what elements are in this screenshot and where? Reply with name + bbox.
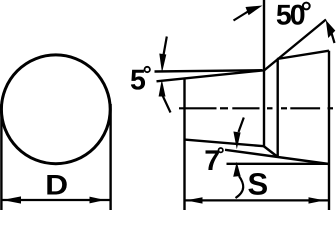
wire: taper top edge (5 deg) — [157, 70, 265, 81]
wire: 50 deg left leader — [234, 12, 249, 21]
wire: top edge of right body — [277, 51, 329, 59]
label 5 deg — [131, 70, 145, 90]
wire: 7 deg upper leader — [239, 118, 244, 133]
arrow: 50 deg left (points up-right at vertical line) — [246, 6, 263, 16]
circle (front view of round insert) — [1, 55, 110, 164]
wire: right edge + S right extension line — [328, 51, 330, 210]
centerline (dash-dot axis) — [179, 107, 333, 109]
wire: D dimension line — [2, 199, 111, 201]
arrow: 5 deg upper (points down at ref line) — [159, 54, 166, 73]
label degree of 7 — [219, 148, 223, 152]
wire: 5 deg horizontal reference line — [155, 70, 263, 71]
arrow: 7 deg upper (points down through taper bottom edge) — [233, 132, 240, 150]
wire: vertical face line at x=264 with top extension — [263, 0, 265, 146]
wire: bottom edge of body extended left (7 deg upper arm) — [225, 150, 329, 164]
wire: 50 deg right leader — [332, 33, 335, 43]
wire: bottom chamfer — [264, 146, 278, 157]
wire: taper bottom edge (7 deg) — [185, 140, 265, 147]
wire: S dimension line — [185, 199, 330, 201]
label 7 deg — [206, 150, 219, 170]
arrow: 5 deg lower (points up at taper edge) — [159, 80, 166, 97]
wire: 5 deg upper leader — [164, 37, 167, 56]
label S — [248, 173, 267, 195]
label degree of 50 — [303, 3, 310, 10]
wire: 5 deg lower leader — [163, 96, 171, 113]
arrow: 50 deg right (points up-left at chamfer line end) — [326, 20, 336, 38]
arrow: S right — [309, 197, 325, 203]
label 50 deg — [277, 5, 305, 25]
wire: 50 deg chamfer line — [264, 20, 326, 71]
arrow: S left — [186, 197, 203, 203]
wire: inner vertical face at x=277.5 — [277, 59, 279, 157]
arrow: 7 deg lower (points up at ref line) — [233, 162, 240, 177]
wire: left edge of cone + S left extension — [183, 78, 185, 210]
wire: 7 deg reference line — [227, 163, 330, 165]
arrow: D right — [90, 197, 106, 204]
wire: D right extension line — [109, 104, 111, 210]
label D — [47, 175, 66, 194]
wire: 7 deg lower leader (arc) — [236, 176, 244, 198]
wire: D left extension line — [0, 104, 2, 210]
arrow: D left — [3, 196, 22, 203]
label degree of 5 — [145, 67, 150, 72]
